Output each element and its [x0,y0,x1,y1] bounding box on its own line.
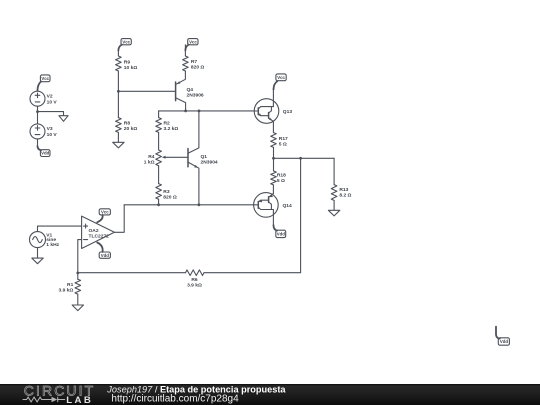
ground [72,305,83,311]
svg-text:Q14: Q14 [283,203,293,209]
svg-text:820 Ω: 820 Ω [191,64,205,70]
svg-text:TLC2272: TLC2272 [89,233,110,239]
svg-text:R18: R18 [277,173,286,179]
resistor R17 [271,133,277,148]
svg-text:10 kΩ: 10 kΩ [124,65,138,71]
Vdd flag (Q14) [274,225,286,237]
lower rail wire [124,204,253,206]
wire [118,90,175,92]
wire [37,248,39,259]
darlington Q14 [254,185,279,226]
svg-text:5 Ω: 5 Ω [277,178,285,184]
svg-text:R7: R7 [191,59,198,65]
svg-text:2N3904: 2N3904 [201,159,218,165]
svg-text:Q1: Q1 [201,154,208,160]
Vdd flag (op-amp) [97,243,110,259]
wire [158,199,160,205]
voltage source V1 [30,232,46,248]
svg-text:V3: V3 [47,126,53,132]
resistor R7 [183,45,189,71]
svg-text:Q13: Q13 [283,109,293,115]
darlington Q13 [254,89,279,133]
wire [37,106,39,111]
resistor R9 [116,56,122,71]
wire [158,132,160,150]
svg-text:1 kΩ: 1 kΩ [144,159,155,165]
svg-text:Vdd: Vdd [41,151,49,156]
svg-text:R6: R6 [191,277,198,283]
node [157,203,160,206]
Vcc flag (R7) [185,39,198,51]
resistor R6 [186,270,205,276]
svg-text:R4: R4 [148,154,155,160]
svg-text:Vcc: Vcc [277,75,285,80]
resistor R8 [116,118,122,133]
svg-text:10 V: 10 V [47,132,58,138]
op-amp OA2 [82,216,115,248]
node [198,203,201,206]
svg-text:R17: R17 [279,136,288,142]
wire [38,111,64,113]
Vcc flag (R9) [118,39,131,51]
svg-text:20 kΩ: 20 kΩ [124,126,138,132]
svg-text:8.2 Ω: 8.2 Ω [339,193,351,199]
svg-text:3.9 kΩ: 3.9 kΩ [58,288,73,294]
- input wire [78,240,82,273]
wire [78,272,186,274]
svg-text:R8: R8 [124,120,131,126]
node [117,90,120,93]
node [36,110,39,113]
voltage source V2 [30,91,45,106]
svg-text:1 kHz: 1 kHz [46,242,59,248]
Vcc flag (left supply) [38,75,51,91]
wire [333,158,335,184]
svg-text:R13: R13 [339,187,348,193]
wire [117,132,119,142]
svg-text:R3: R3 [163,189,170,195]
svg-text:Q4: Q4 [187,87,194,93]
resistor R3 [156,184,162,200]
node [299,157,302,160]
wire [158,166,160,184]
svg-text:R2: R2 [164,120,171,126]
node [198,110,201,113]
wire [77,294,79,305]
Vcc flag (Q13) [274,74,287,90]
wire [273,147,275,158]
CircuitLab logo [23,382,96,405]
wire [117,91,119,117]
svg-text:Vdd: Vdd [500,339,508,344]
svg-text:Vdd: Vdd [277,232,285,237]
ground [328,210,339,216]
svg-text:Vdd: Vdd [101,253,109,258]
lone Vdd flag [496,327,509,345]
svg-text:10 V: 10 V [47,99,58,105]
wire [159,110,255,112]
transistor Q1 [188,111,199,205]
svg-text:Vcc: Vcc [122,39,130,44]
potentiometer R4 [156,150,188,166]
node [76,272,79,275]
svg-text:Vcc: Vcc [41,76,49,81]
svg-text:820 Ω: 820 Ω [163,194,177,200]
Vdd flag (left supply) [38,146,51,157]
resistor R18 [271,158,277,185]
transistor Q4 [176,71,186,111]
wire [117,71,119,91]
node [184,110,187,113]
op-amp output wire [114,205,124,233]
wire output row [274,157,335,159]
svg-text:R9: R9 [124,60,131,66]
resistor R2 [156,111,162,132]
svg-text:R1: R1 [67,282,74,288]
wire [333,200,335,210]
ground [113,142,124,148]
resistor R1 [75,273,81,294]
svg-text:Vcc: Vcc [189,39,197,44]
svg-text:OA2: OA2 [89,228,99,234]
svg-text:Vcc: Vcc [101,210,109,215]
wire [37,139,39,146]
+ input wire [38,226,82,232]
svg-text:2N3906: 2N3906 [187,93,204,99]
feedback wire [204,158,301,272]
ground [32,258,43,264]
ground [59,112,68,122]
svg-text:3.2 kΩ: 3.2 kΩ [164,126,179,132]
voltage source V3 [30,112,45,139]
svg-text:LAB: LAB [66,395,93,405]
resistor R13 [331,185,337,201]
node [272,157,275,160]
svg-text:http://circuitlab.com/c7p28g4: http://circuitlab.com/c7p28g4 [111,394,239,405]
svg-text:V2: V2 [47,94,53,100]
Vcc flag (op-amp) [97,209,110,223]
svg-text:5 Ω: 5 Ω [279,141,287,147]
wire [117,50,119,56]
svg-text:3.9 kΩ: 3.9 kΩ [187,282,202,288]
